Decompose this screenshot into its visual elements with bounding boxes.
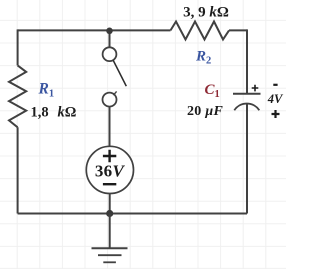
resistor R2 xyxy=(171,22,230,40)
junction node B bottom xyxy=(106,210,113,217)
wire top-left segment xyxy=(18,29,171,31)
wire source to bottom junction xyxy=(109,194,111,214)
label plus annotation of C1 voltage xyxy=(272,110,280,118)
capacitor polarity plus mark xyxy=(252,85,259,92)
wire junction A to switch xyxy=(109,30,111,47)
ground symbol xyxy=(92,248,128,262)
wire top-right segment xyxy=(229,29,247,31)
voltage source plus sign xyxy=(103,150,116,163)
switch S1 pivot stub xyxy=(113,91,116,95)
wire right lower segment xyxy=(246,104,248,214)
voltage source V1 circle xyxy=(86,146,133,193)
wire right upper segment xyxy=(246,29,248,93)
label minus annotation of C1 voltage xyxy=(273,84,277,86)
wire left upper segment xyxy=(17,29,19,65)
capacitor C1 xyxy=(233,94,261,111)
switch S1 blade open xyxy=(113,60,126,86)
svg-text:3, 9 kΩ: 3, 9 kΩ xyxy=(183,5,229,21)
switch S1 top terminal xyxy=(103,47,117,61)
wire switch to source xyxy=(109,107,111,147)
svg-text:20 μF: 20 μF xyxy=(187,104,223,119)
switch S1 bottom terminal xyxy=(103,93,117,107)
svg-text:36V: 36V xyxy=(95,161,126,180)
voltage source minus sign xyxy=(103,183,116,185)
resistor R1 xyxy=(9,65,26,127)
wire left lower segment xyxy=(17,127,19,213)
wire bottom segment xyxy=(18,213,247,215)
ground stem wire xyxy=(109,214,111,249)
junction node A top xyxy=(106,28,113,35)
svg-text:4V: 4V xyxy=(267,92,284,106)
